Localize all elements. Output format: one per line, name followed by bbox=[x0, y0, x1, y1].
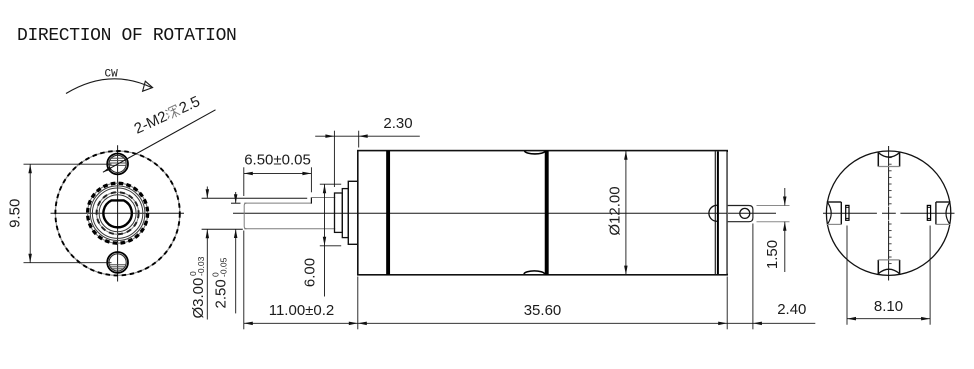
dim 8.10 line and arrows bbox=[847, 318, 930, 320]
label 2-M2(depth)2.5 bbox=[132, 93, 203, 138]
terminal pin right bbox=[927, 205, 930, 220]
shaft end face bbox=[244, 203, 246, 229]
collar ring 2 bbox=[342, 189, 348, 238]
dim 6.00 extension ticks bbox=[320, 183, 341, 185]
svg-text:9.50: 9.50 bbox=[7, 199, 24, 228]
gearbox/motor joint band bbox=[545, 151, 549, 275]
gearbox front band bbox=[386, 151, 390, 275]
svg-text:11.00±0.2: 11.00±0.2 bbox=[269, 302, 335, 319]
leader line for tapped holes bbox=[103, 110, 216, 172]
end cap inner line bbox=[717, 152, 719, 275]
terminal tab hole bbox=[740, 208, 750, 218]
end view bottom tab bbox=[877, 260, 879, 274]
weld nub top bbox=[525, 151, 546, 154]
shaft bottom edge bbox=[244, 228, 335, 230]
end cap right edge bbox=[726, 152, 728, 274]
boss ring r18 bbox=[99, 195, 136, 232]
svg-text:8.10: 8.10 bbox=[874, 298, 903, 315]
svg-text:2.40: 2.40 bbox=[777, 301, 806, 318]
boss knurled inner ring bbox=[97, 192, 139, 234]
rotation arc CW bbox=[66, 79, 152, 94]
dim 2.30 extension lines bbox=[333, 131, 335, 187]
shaft bushing with flat bbox=[103, 200, 131, 227]
dim Ø3 extension lines bbox=[202, 197, 308, 199]
svg-text:Ø3.00: Ø3.00 bbox=[190, 278, 207, 319]
svg-text:Ø12.00: Ø12.00 bbox=[607, 186, 624, 235]
dim 2.30 line and arrows bbox=[315, 135, 334, 137]
motor body outline bbox=[358, 151, 727, 275]
svg-text:35.60: 35.60 bbox=[524, 302, 562, 319]
svg-text:-0.03: -0.03 bbox=[196, 256, 206, 276]
dim 9.50 extension lines bbox=[24, 163, 112, 165]
front view vertical centerline bbox=[117, 145, 119, 281]
dim 11.00 arrows bbox=[244, 322, 253, 326]
end view circle bbox=[826, 151, 950, 275]
svg-text:DIRECTION OF ROTATION: DIRECTION OF ROTATION bbox=[17, 26, 237, 46]
leader arrowhead bbox=[103, 167, 112, 173]
svg-text:-0.05: -0.05 bbox=[219, 257, 229, 277]
front view horizontal centerline bbox=[51, 212, 185, 214]
svg-text:CW: CW bbox=[105, 69, 119, 81]
bottom extension lines bbox=[243, 231, 245, 330]
dim 6.50 extension lines bbox=[243, 167, 245, 196]
end view left notch bbox=[827, 201, 842, 203]
boss ring r27 bbox=[90, 186, 145, 241]
shaft flat step bbox=[310, 197, 312, 203]
mounting hole bottom (M2 tapped) bbox=[107, 252, 128, 273]
dim Ø3 line and arrows bbox=[206, 187, 208, 199]
end view vertical centerline bbox=[888, 146, 890, 206]
dim 9.50 line and arrows bbox=[29, 164, 31, 263]
rotation arrowhead bbox=[143, 81, 153, 91]
dim 2.5 line and arrows bbox=[235, 192, 237, 203]
weld nub bottom bbox=[524, 271, 545, 274]
svg-text:2.50: 2.50 bbox=[213, 279, 230, 308]
boss knurled outer ring bbox=[88, 183, 148, 243]
end view horizontal centerline bbox=[823, 212, 955, 214]
terminal bushing semicircle bbox=[709, 205, 717, 221]
svg-text:6.50±0.05: 6.50±0.05 bbox=[244, 152, 311, 169]
svg-text:2.30: 2.30 bbox=[383, 115, 412, 132]
front view outer circle (Ø12 face) bbox=[55, 151, 179, 275]
dim 1.50 extension lines bbox=[757, 205, 790, 207]
shaft flat top edge bbox=[244, 202, 311, 204]
terminal tab bbox=[727, 206, 753, 222]
bottom dimension line bbox=[244, 322, 816, 324]
shaft top edge bbox=[311, 197, 335, 199]
boss ring r25 bbox=[92, 188, 142, 238]
end cap left line bbox=[714, 151, 716, 274]
dim 6.00 line and arrows bbox=[324, 184, 326, 296]
dim 6.50 line and arrows bbox=[244, 172, 312, 174]
dim 8.10 extension lines bbox=[846, 226, 848, 325]
side view centerline bbox=[233, 212, 776, 214]
svg-text:1.50: 1.50 bbox=[764, 240, 781, 269]
dim 2.5 text bbox=[210, 257, 229, 308]
collar ring 1 bbox=[335, 193, 343, 232]
end view right notch bbox=[936, 201, 951, 203]
dim Ø12 line and arrows bbox=[625, 151, 627, 275]
collar ring 3 (Ø6 boss) bbox=[348, 181, 358, 244]
dim 2.5 extension tick bbox=[231, 202, 241, 204]
svg-text:6.00: 6.00 bbox=[302, 258, 319, 287]
dim Ø3 text bbox=[188, 256, 207, 318]
dim 1.50 line and arrows bbox=[784, 188, 786, 206]
end view top tab bbox=[877, 152, 879, 166]
dim 35.60 arrows bbox=[358, 322, 367, 326]
terminal pin left bbox=[846, 205, 849, 220]
mounting hole top (M2 tapped) bbox=[107, 154, 128, 175]
dim 2.40 arrow bbox=[753, 322, 762, 326]
